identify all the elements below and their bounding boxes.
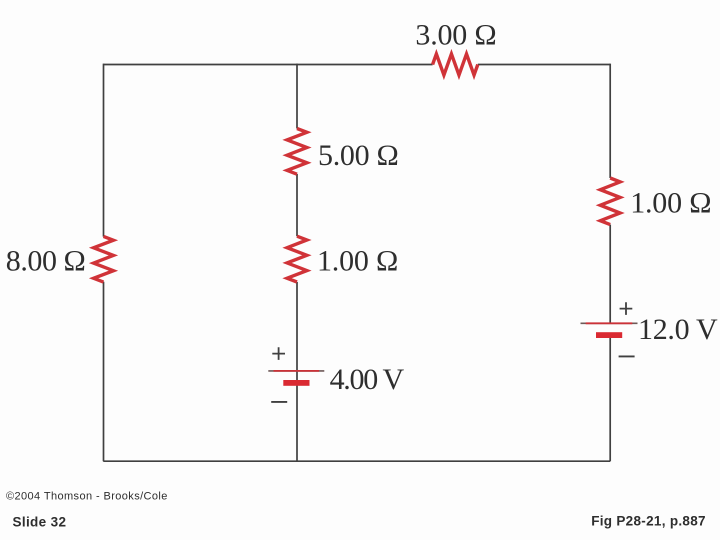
wire: bottom horizontal [103, 460, 610, 462]
resistor 3.00-ohm (top) [433, 54, 478, 75]
svg-text:Fig P28-21, p.887: Fig P28-21, p.887 [591, 513, 706, 528]
battery 12.0 V: negative plate (short thick) [596, 332, 622, 338]
battery 12.0 V: plus sign [620, 302, 633, 315]
battery 4.00 V: plus sign [272, 347, 285, 360]
wire: right branch below battery [609, 338, 611, 461]
resistor 5.00-ohm (middle branch) [287, 129, 307, 175]
svg-text:8.00 Ω: 8.00 Ω [6, 245, 86, 278]
svg-text:Slide 32: Slide 32 [13, 515, 67, 530]
svg-text:3.00 Ω: 3.00 Ω [415, 19, 496, 52]
battery 4.00 V: negative plate (short thick) [283, 380, 309, 386]
resistor 1.00-ohm (middle branch) [287, 236, 307, 282]
wire: top-left horizontal segment [103, 64, 432, 66]
resistor 1.00-ohm (right branch) [600, 178, 620, 225]
svg-text:1.00 Ω: 1.00 Ω [630, 187, 711, 220]
wire: top-right horizontal segment [478, 64, 610, 66]
svg-text:12.0 V: 12.0 V [638, 313, 718, 346]
wire: middle branch top [296, 64, 298, 129]
wire: left branch upper [103, 64, 105, 237]
wire: middle branch between 1-ohm and battery (continuous through plates) [296, 282, 298, 386]
svg-text:4.00 V: 4.00 V [330, 363, 405, 396]
battery 4.00 V: positive plate (long) [268, 370, 324, 372]
battery 12.0 V: positive plate (long) [581, 322, 638, 324]
battery 4.00 V: minus sign [271, 401, 287, 403]
wire: right branch upper [609, 64, 611, 178]
wire: left branch lower [103, 282, 105, 461]
wire: middle branch below battery [296, 386, 298, 461]
svg-text:5.00 Ω: 5.00 Ω [318, 139, 399, 172]
wire: middle branch between 5-ohm and 1-ohm [296, 174, 298, 236]
wire: right branch between resistor and battery [609, 225, 611, 324]
svg-text:©2004 Thomson - Brooks/Cole: ©2004 Thomson - Brooks/Cole [6, 491, 168, 503]
battery 12.0 V: minus sign [619, 355, 635, 357]
svg-text:1.00 Ω: 1.00 Ω [317, 245, 398, 278]
resistor 8.00-ohm (left branch) [94, 236, 114, 282]
